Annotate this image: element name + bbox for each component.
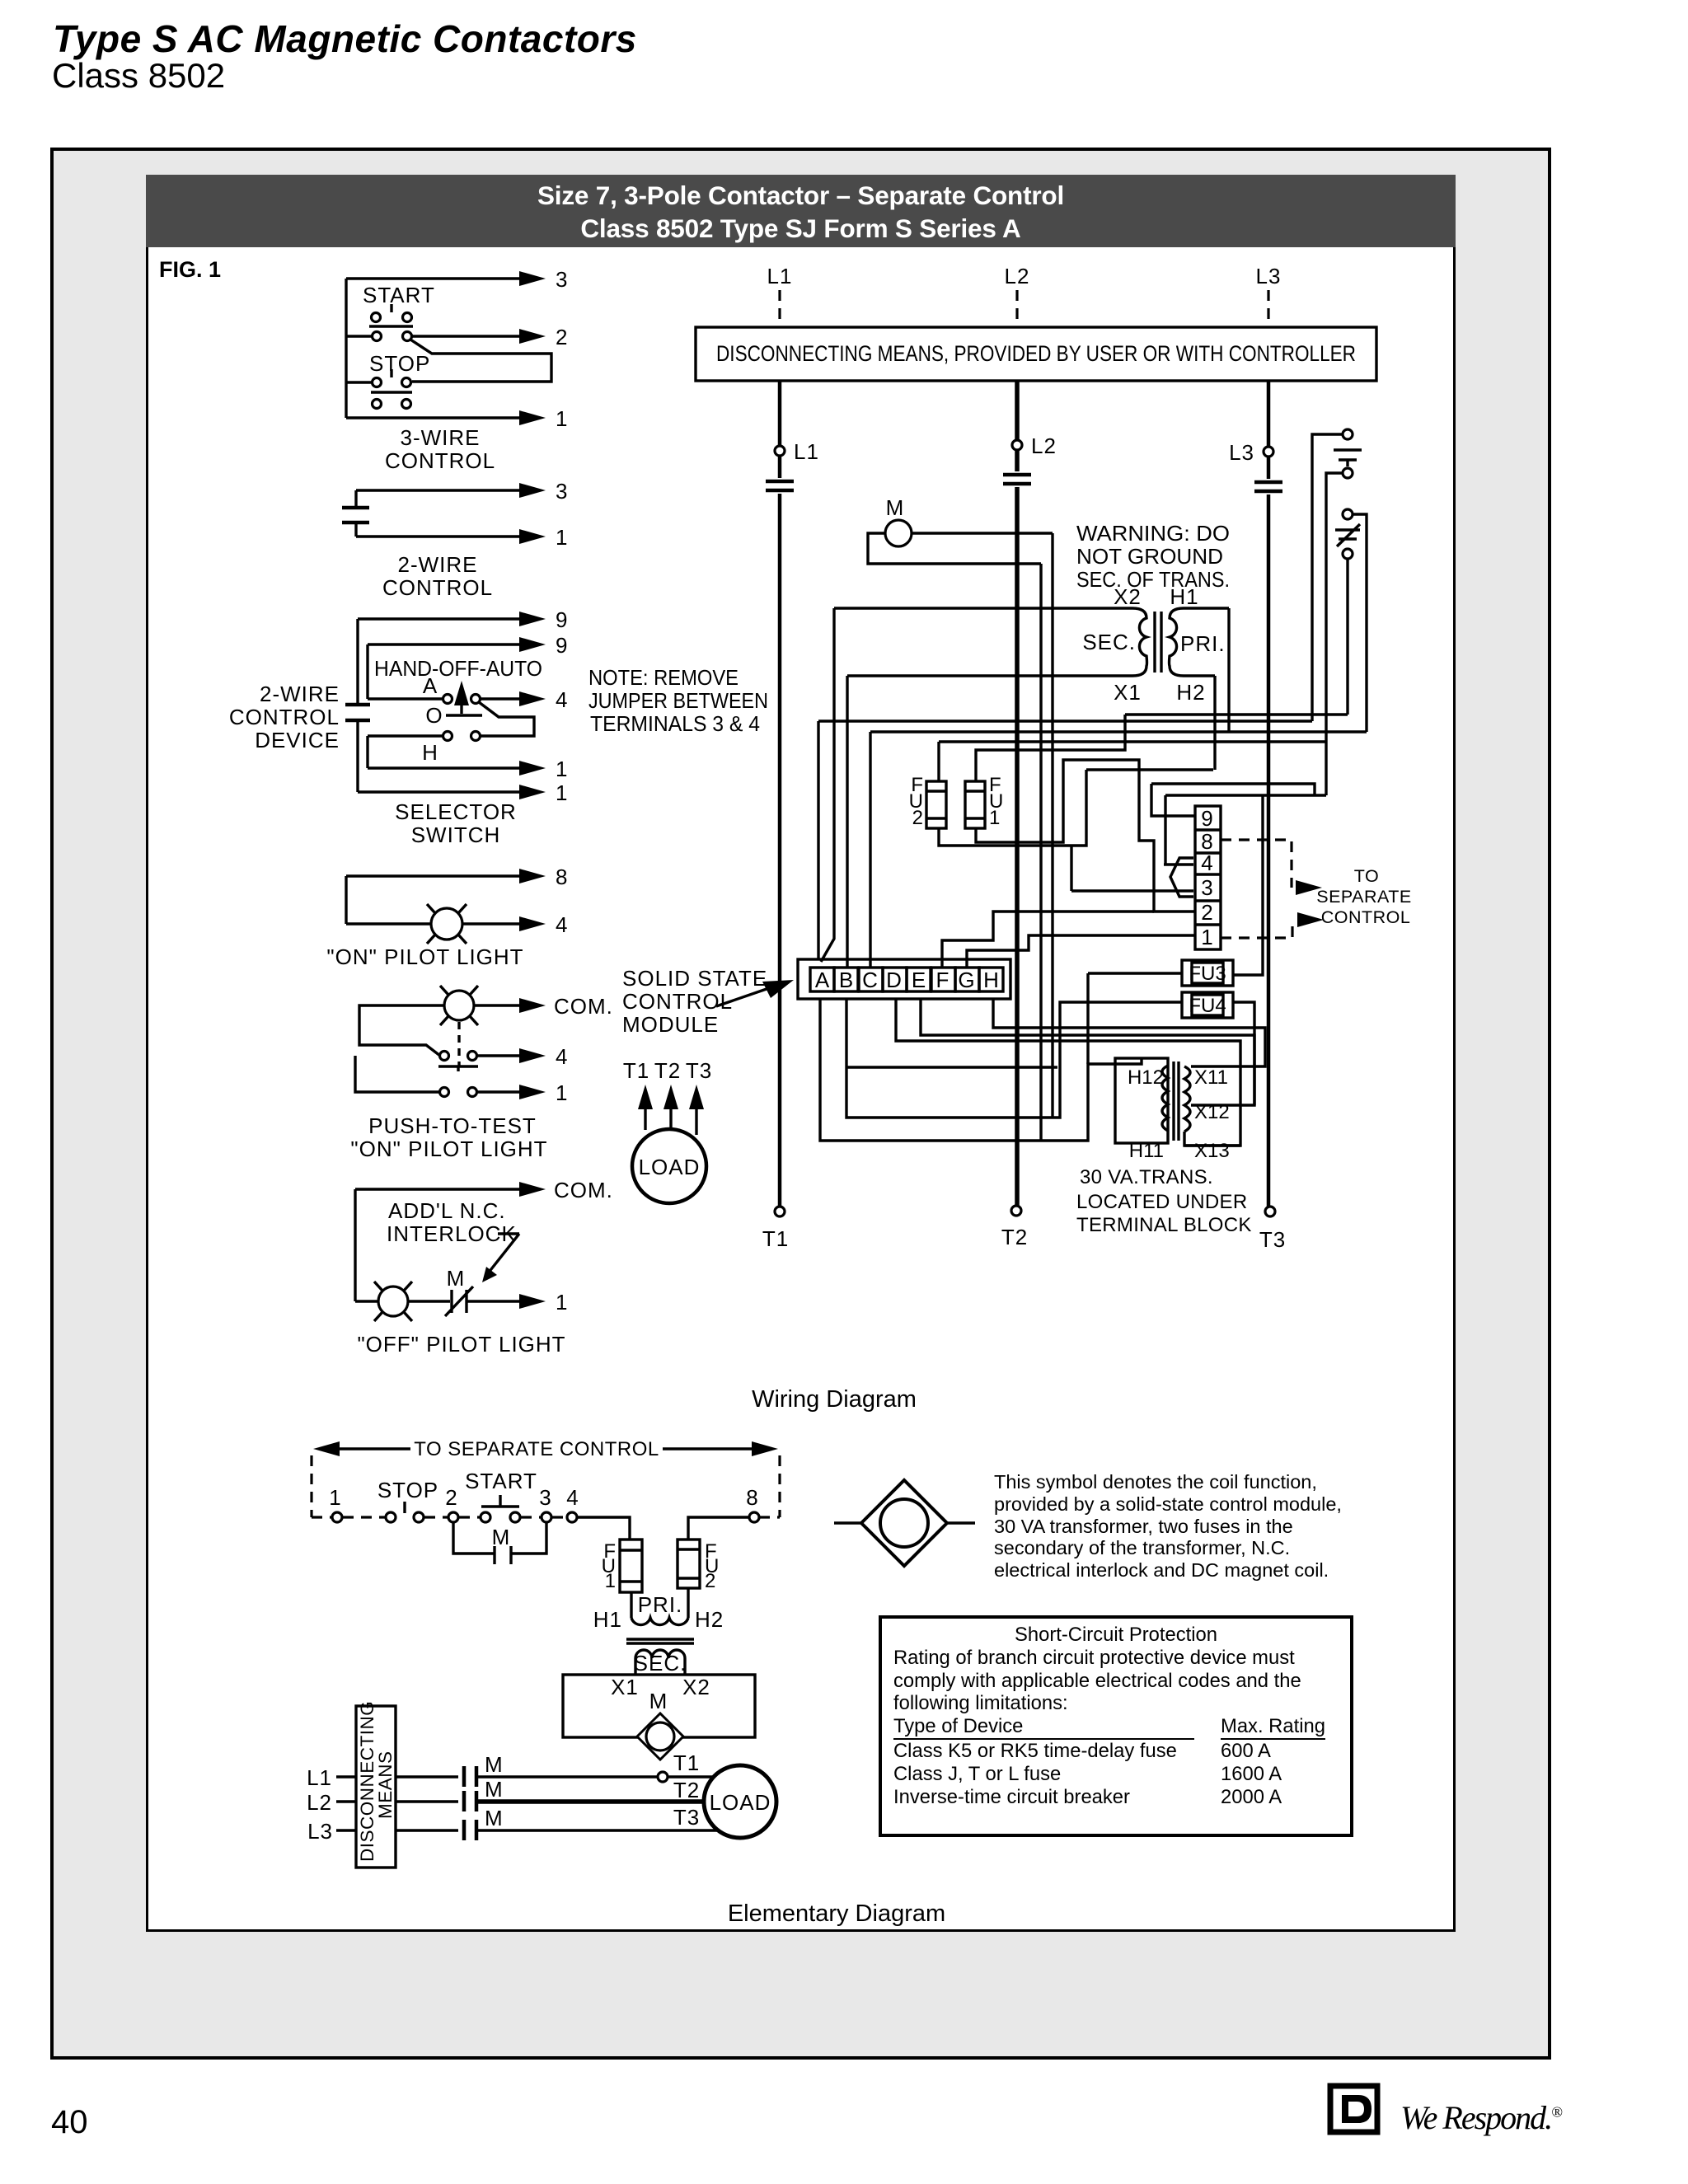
elementary transformer core: [626, 1639, 694, 1643]
svg-text:CONTROL: CONTROL: [382, 575, 493, 600]
ptt lower contact: [440, 1088, 449, 1097]
wire A contact to terminal 4: [481, 697, 519, 700]
svg-text:X13: X13: [1194, 1140, 1230, 1162]
wire secondary to coil box: [635, 1658, 685, 1675]
wire module B riser from X1: [846, 676, 848, 968]
wire M coil right: [912, 532, 1053, 534]
wire ptt to terminal 4: [477, 1054, 519, 1057]
svg-text:T1: T1: [623, 1058, 649, 1083]
Square D logo: [1330, 2086, 1377, 2132]
svg-text:T2: T2: [673, 1778, 700, 1802]
wire terminal 9 feed: [1151, 784, 1326, 865]
svg-text:"ON" PILOT LIGHT: "ON" PILOT LIGHT: [350, 1137, 547, 1161]
ptt test contact: [440, 1052, 449, 1061]
svg-text:PUSH-TO-TEST: PUSH-TO-TEST: [368, 1113, 537, 1138]
svg-text:T3: T3: [673, 1805, 700, 1830]
wire module A to trans H12: [820, 999, 1142, 1141]
svg-text:L3: L3: [1256, 264, 1282, 288]
wire FU2 bottom chain to plug: [939, 770, 1164, 891]
fuse FU1: [965, 781, 985, 828]
svg-text:M: M: [485, 1806, 504, 1830]
solid state control module: [798, 959, 1010, 999]
svg-text:COM.: COM.: [554, 994, 613, 1019]
wire FU4 right: [1233, 1002, 1254, 1105]
wire FU1 top chain: [976, 715, 1125, 781]
svg-text:L2: L2: [1031, 434, 1057, 458]
terminal arrow 1: [519, 529, 546, 544]
node 3: [542, 1512, 551, 1522]
30VA transformer primary: [1115, 1058, 1168, 1143]
wire module A diagonal from X2: [821, 608, 834, 962]
svg-text:SELECTOR: SELECTOR: [395, 799, 517, 824]
svg-text:H: H: [422, 740, 438, 765]
wire FU3 to chain: [1088, 795, 1263, 1064]
nc interlock contact: [445, 1286, 473, 1316]
wire 9 to A contact: [368, 644, 443, 699]
svg-text:LOAD: LOAD: [639, 1155, 701, 1179]
stop contact elementary: [386, 1512, 396, 1522]
coil M: [885, 520, 912, 546]
2-wire control contact: [342, 508, 369, 523]
wire 2-wire control bottom to terminal 1: [356, 523, 519, 537]
svg-text:MODULE: MODULE: [622, 1012, 719, 1037]
disconnecting means box elementary: [356, 1706, 396, 1868]
wire L3 to contact: [396, 1829, 458, 1831]
svg-text:M: M: [492, 1525, 511, 1549]
disconnecting means box: [696, 327, 1376, 381]
svg-text:L3: L3: [1229, 440, 1254, 465]
wire bus to NO top: [818, 719, 1312, 722]
svg-text:A: A: [423, 673, 438, 698]
wire FU2 to H2: [687, 1588, 689, 1618]
wire contact to load T3: [476, 1829, 720, 1831]
terminal L2: [1012, 440, 1022, 450]
wire ptt to com: [474, 1004, 519, 1006]
dashed separate control from terminal 8: [1221, 840, 1292, 888]
svg-text:"ON" PILOT LIGHT: "ON" PILOT LIGHT: [326, 944, 523, 969]
svg-text:A: A: [815, 968, 830, 992]
svg-text:4: 4: [556, 1044, 568, 1069]
wire FU3 left: [1088, 972, 1182, 974]
svg-text:JUMPER BETWEEN: JUMPER BETWEEN: [588, 688, 768, 713]
wire module B to FU4: [846, 999, 1182, 1118]
wire selector to terminal 9 upper: [358, 617, 519, 620]
svg-text:X12: X12: [1194, 1101, 1230, 1123]
svg-text:2-WIRE: 2-WIRE: [398, 552, 478, 577]
svg-text:SEPARATE: SEPARATE: [1316, 887, 1412, 907]
node 8: [749, 1512, 759, 1522]
svg-text:2: 2: [705, 1570, 715, 1592]
svg-text:FU3: FU3: [1189, 963, 1226, 985]
svg-text:STOP: STOP: [369, 351, 430, 376]
off pilot light: [378, 1286, 408, 1316]
wire T1 to load: [668, 1775, 715, 1778]
svg-text:30 VA.TRANS.: 30 VA.TRANS.: [1080, 1166, 1213, 1188]
svg-text:9: 9: [1201, 806, 1213, 831]
svg-text:X2: X2: [1114, 584, 1142, 609]
svg-text:1: 1: [556, 780, 568, 805]
wire module H to X11: [993, 999, 1265, 1066]
svg-text:1: 1: [989, 807, 1000, 829]
coil function box: [563, 1675, 755, 1737]
contactor pole M L2: [1003, 475, 1031, 484]
svg-text:H12: H12: [1128, 1066, 1164, 1089]
wire L1 pole: [778, 381, 782, 1207]
svg-text:3: 3: [539, 1485, 551, 1510]
svg-text:X2: X2: [682, 1675, 710, 1699]
svg-text:X1: X1: [1114, 680, 1142, 705]
svg-text:B: B: [839, 968, 854, 992]
wire left vertical 3-wire control: [345, 279, 347, 418]
wire contact to load T2: [476, 1799, 706, 1804]
contactor pole M L3: [1254, 482, 1282, 491]
wire start to terminal 2: [412, 335, 519, 337]
svg-text:9: 9: [556, 607, 568, 632]
svg-text:SEC.: SEC.: [1082, 630, 1136, 654]
stop pushbutton bridge: [373, 378, 382, 387]
wire bus fu2 top to NO bottom: [939, 740, 1326, 743]
svg-text:3-WIRE: 3-WIRE: [401, 425, 481, 450]
M power contact L2: [464, 1791, 476, 1811]
wire ptt to terminal 1: [477, 1090, 519, 1093]
fuse FU4: [1182, 992, 1233, 1018]
wire L2 pole: [1015, 381, 1020, 1206]
wire module G corner to terminal 1: [967, 935, 1195, 968]
svg-text:X11: X11: [1194, 1066, 1228, 1089]
svg-text:TERMINALS 3 & 4: TERMINALS 3 & 4: [590, 711, 760, 736]
svg-text:H2: H2: [695, 1607, 724, 1632]
svg-text:SWITCH: SWITCH: [411, 823, 501, 847]
M power contact L3: [464, 1820, 476, 1840]
svg-text:8: 8: [746, 1485, 758, 1510]
terminal arrow 3: [519, 271, 546, 286]
wire aux NO bottom: [1326, 473, 1343, 795]
node T1 elementary: [658, 1772, 668, 1782]
svg-text:TERMINAL BLOCK: TERMINAL BLOCK: [1076, 1214, 1252, 1236]
wire contact to T1: [476, 1775, 658, 1778]
svg-text:D: D: [886, 968, 903, 992]
svg-text:9: 9: [556, 633, 568, 658]
wire 3-wire control bottom to terminal 1: [346, 416, 519, 419]
M power contact L1: [464, 1766, 476, 1787]
svg-text:PRI.: PRI.: [1180, 631, 1226, 656]
svg-text:CONTROL: CONTROL: [622, 989, 733, 1014]
svg-text:L2: L2: [1005, 264, 1030, 288]
interlock leader arrow: [488, 1234, 519, 1273]
svg-text:1: 1: [556, 757, 568, 781]
wire L2 to contact: [396, 1800, 458, 1802]
svg-text:4: 4: [566, 1485, 579, 1510]
wire module F corner: [942, 912, 1154, 968]
wire module A riser: [817, 721, 819, 959]
terminal arrow 1: [519, 410, 546, 425]
wire A to H jumper: [479, 702, 534, 736]
svg-text:L3: L3: [307, 1819, 333, 1844]
svg-text:H1: H1: [1170, 584, 1198, 609]
svg-text:CONTROL: CONTROL: [1321, 907, 1411, 927]
wire aux NO top: [1312, 434, 1343, 721]
module leader arrow: [716, 989, 767, 1006]
svg-text:1: 1: [1201, 925, 1213, 949]
node 4: [567, 1512, 577, 1522]
fuse FU2: [926, 781, 946, 828]
svg-text:M: M: [485, 1752, 504, 1777]
wire bus to NC bottom: [1125, 713, 1348, 715]
svg-text:T3: T3: [1259, 1227, 1286, 1252]
wire 2-wire control top to terminal 3: [356, 490, 519, 508]
on pilot light: [431, 908, 462, 940]
svg-text:START: START: [465, 1469, 537, 1493]
svg-text:2: 2: [445, 1485, 457, 1510]
to separate control span: [312, 1455, 780, 1517]
aux NO contact: [1343, 429, 1353, 439]
svg-text:FU4: FU4: [1189, 995, 1226, 1017]
node T3: [1265, 1207, 1275, 1216]
wire bus H2 drop: [1213, 676, 1216, 770]
svg-text:X1: X1: [611, 1675, 639, 1699]
svg-text:NOT GROUND: NOT GROUND: [1076, 544, 1223, 569]
wire interlock to terminal 1: [467, 1300, 519, 1302]
load motor elementary: [704, 1765, 776, 1838]
wire L3 pole: [1267, 381, 1271, 1207]
wire FU1 to H1: [630, 1592, 632, 1618]
svg-text:M: M: [447, 1266, 466, 1291]
elementary transformer secondary: [635, 1650, 685, 1658]
stop pushbutton terminals: [373, 400, 382, 409]
svg-text:WARNING: DO: WARNING: DO: [1076, 521, 1230, 546]
svg-text:O: O: [425, 703, 443, 728]
svg-text:1: 1: [329, 1485, 341, 1510]
wire to start contact: [346, 335, 372, 337]
wire 4 to FU1: [577, 1517, 630, 1540]
wire start-stop jumper: [410, 340, 551, 382]
wire ptt left branch: [359, 1005, 444, 1056]
wire module C riser: [869, 732, 871, 968]
svg-text:STOP: STOP: [377, 1478, 438, 1502]
terminal block column: [1195, 806, 1221, 949]
svg-text:2-WIRE: 2-WIRE: [260, 682, 340, 706]
node T2: [1011, 1206, 1021, 1216]
wire off-pilot to com: [355, 1188, 519, 1190]
load motor wiring diagram: [632, 1129, 706, 1203]
selector pointer arrow: [460, 694, 462, 714]
wire on-pilot to terminal 4: [463, 922, 519, 925]
svg-text:1: 1: [605, 1570, 616, 1592]
svg-text:NOTE: REMOVE: NOTE: REMOVE: [588, 665, 738, 690]
node T1: [775, 1207, 785, 1216]
svg-text:M: M: [886, 495, 905, 520]
plug wedge terminals 3 and 4: [1164, 858, 1193, 897]
wire selector bottom to terminal 1: [358, 790, 519, 793]
dashed separate control from terminal 1: [1221, 920, 1292, 938]
wire selector left vertical: [356, 619, 359, 792]
svg-text:START: START: [363, 283, 435, 307]
svg-text:3: 3: [556, 479, 568, 504]
wire aux NC top: [1353, 514, 1367, 732]
terminal L3: [1264, 447, 1273, 457]
fuse FU2 elementary: [678, 1540, 700, 1588]
svg-text:L1: L1: [767, 264, 793, 288]
svg-text:L2: L2: [307, 1790, 332, 1815]
wire to stop contact: [346, 381, 372, 383]
svg-text:4: 4: [556, 687, 568, 712]
elementary transformer primary: [631, 1618, 688, 1625]
svg-text:H2: H2: [1176, 680, 1205, 705]
wire module E to X12: [921, 999, 1254, 1105]
svg-text:4: 4: [1201, 851, 1213, 875]
wire M coil left: [868, 533, 1041, 564]
contactor pole M L1: [766, 481, 794, 490]
svg-text:H11: H11: [1129, 1140, 1164, 1162]
wire 8 to FU2: [688, 1517, 749, 1540]
terminal arrow 3: [519, 483, 546, 498]
svg-text:8: 8: [556, 865, 568, 889]
svg-text:T1: T1: [762, 1226, 789, 1251]
svg-text:LOAD: LOAD: [710, 1790, 771, 1815]
dashed actuator link: [457, 1022, 460, 1066]
control transformer secondary winding: [834, 608, 1147, 676]
svg-text:4: 4: [556, 912, 568, 937]
svg-text:F: F: [936, 968, 950, 992]
svg-text:L1: L1: [307, 1765, 332, 1790]
start pushbutton terminals: [373, 332, 382, 341]
svg-text:SEC.: SEC.: [634, 1651, 687, 1675]
wire off-pilot to interlock: [355, 1300, 450, 1302]
svg-text:1: 1: [556, 1290, 568, 1315]
30VA transformer secondary: [1184, 1066, 1190, 1132]
wire aux NC bottom: [1346, 559, 1348, 715]
wire off-pilot left vertical: [354, 1189, 356, 1301]
svg-text:1: 1: [556, 525, 568, 550]
svg-text:M: M: [485, 1777, 504, 1802]
svg-text:SOLID STATE: SOLID STATE: [622, 966, 767, 991]
wire bus H1 to NC top: [870, 608, 1367, 732]
svg-text:2: 2: [912, 807, 923, 829]
svg-text:C: C: [862, 968, 879, 992]
node 2: [448, 1512, 458, 1522]
wire L1 to contact: [396, 1775, 458, 1778]
svg-text:1: 1: [556, 1080, 568, 1105]
svg-text:PRI.: PRI.: [638, 1592, 683, 1617]
svg-text:G: G: [958, 968, 975, 992]
control transformer primary winding: [1170, 608, 1230, 676]
svg-text:T2: T2: [654, 1058, 681, 1083]
svg-text:DISCONNECTING MEANS, PROVIDED: DISCONNECTING MEANS, PROVIDED BY USER OR…: [716, 341, 1356, 366]
wire bus mid jumper: [1086, 768, 1213, 771]
selector switch H contact: [443, 732, 452, 741]
start contact elementary: [481, 1512, 490, 1522]
fuse FU3: [1182, 960, 1233, 986]
wire module D to X13: [896, 999, 1240, 1146]
svg-text:LOCATED UNDER: LOCATED UNDER: [1076, 1191, 1247, 1213]
svg-text:2: 2: [556, 325, 568, 349]
control transformer core: [1155, 612, 1161, 673]
2-wire control device contact: [345, 705, 370, 720]
wire on-pilot to terminal 8: [346, 876, 519, 924]
svg-text:TO SEPARATE CONTROL: TO SEPARATE CONTROL: [414, 1438, 659, 1460]
svg-text:DEVICE: DEVICE: [255, 728, 340, 752]
svg-text:1: 1: [556, 406, 568, 431]
svg-text:TO: TO: [1354, 866, 1379, 886]
30VA transformer core: [1174, 1062, 1179, 1141]
wire ptt lower branch: [355, 1056, 439, 1092]
fuse FU1 elementary: [620, 1540, 642, 1592]
svg-text:SEC. OF TRANS.: SEC. OF TRANS.: [1076, 567, 1230, 592]
coil function symbol legend: [834, 1521, 975, 1524]
svg-text:L1: L1: [794, 439, 819, 464]
svg-text:2: 2: [1201, 900, 1213, 925]
svg-text:CONTROL: CONTROL: [385, 448, 495, 473]
svg-text:E: E: [912, 968, 926, 992]
svg-text:INTERLOCK: INTERLOCK: [387, 1221, 517, 1246]
wire FU2 top chain: [937, 742, 940, 781]
node 1: [332, 1512, 342, 1522]
wire vertical beside L2 right: [1051, 533, 1053, 1118]
push-to-test pilot light: [444, 991, 474, 1020]
wire H contact left: [368, 736, 519, 768]
terminal L1: [775, 446, 785, 456]
svg-text:"OFF" PILOT LIGHT: "OFF" PILOT LIGHT: [357, 1332, 565, 1357]
svg-text:HAND-OFF-AUTO: HAND-OFF-AUTO: [374, 656, 542, 681]
svg-text:3: 3: [556, 267, 568, 292]
svg-text:T3: T3: [686, 1058, 712, 1083]
svg-text:CONTROL: CONTROL: [229, 705, 340, 729]
svg-text:T2: T2: [1001, 1225, 1028, 1249]
start pushbutton bridge: [372, 313, 381, 322]
svg-text:MEANS: MEANS: [375, 1750, 396, 1819]
svg-text:3: 3: [1201, 875, 1213, 900]
wire vertical beside L2 left: [1039, 564, 1042, 1141]
wire 3-wire control top to terminal 3: [346, 277, 519, 279]
svg-text:ADD'L N.C.: ADD'L N.C.: [388, 1198, 506, 1223]
svg-text:H1: H1: [593, 1607, 622, 1632]
terminal arrow 2: [519, 329, 546, 344]
svg-text:H: H: [983, 968, 1000, 992]
wire FU1 bottom chain to terminal 2: [976, 760, 1195, 912]
aux NC contact: [1343, 509, 1353, 519]
svg-text:COM.: COM.: [554, 1178, 613, 1202]
svg-text:T1: T1: [673, 1750, 700, 1775]
svg-text:M: M: [649, 1689, 668, 1713]
wire selector to terminal 9 lower: [368, 643, 519, 645]
elementary rung dashed: [312, 1516, 780, 1518]
